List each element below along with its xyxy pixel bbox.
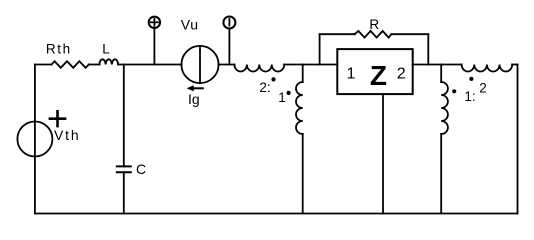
wire T1 primary to Z box <box>284 64 337 66</box>
wire T2 to right edge <box>512 64 517 66</box>
node C branch: wire down to capacitor <box>123 65 125 167</box>
resistor Rth <box>52 61 89 68</box>
bottom rail <box>35 213 518 215</box>
wire Z right to transformer2 <box>413 64 462 66</box>
wire between Rth and L <box>89 64 100 66</box>
svg-text:2: 2 <box>479 81 487 96</box>
transformer T2 primary winding (1) vertical <box>440 65 442 83</box>
T1 dot primary <box>271 77 275 81</box>
terminal | (Vu negative probe) <box>228 29 230 65</box>
svg-text:2:: 2: <box>259 80 270 95</box>
terminal + (Vu positive probe) <box>153 28 155 65</box>
capacitor C <box>117 165 131 167</box>
wire L to source circle <box>118 64 181 66</box>
resistor R <box>355 31 392 38</box>
svg-text:Vth: Vth <box>54 127 80 143</box>
wire top-left lead to resistor <box>35 64 52 66</box>
voltage source Vth <box>17 122 52 157</box>
svg-text:Ig: Ig <box>188 91 200 107</box>
wire left vertical (Vth branch) <box>34 65 36 214</box>
inductor L <box>99 59 118 64</box>
transformer T1 primary winding (2) horizontal <box>234 65 284 72</box>
svg-text:C: C <box>136 161 146 177</box>
svg-text:1: 1 <box>346 65 355 82</box>
T1 dot secondary <box>287 91 291 95</box>
svg-text:2: 2 <box>397 65 406 82</box>
wire source to transformer1 primary <box>219 64 235 66</box>
T2 dot secondary <box>469 77 473 81</box>
wire Z bottom lead <box>382 94 384 213</box>
wire right vertical <box>517 65 519 214</box>
T2 dot primary <box>452 89 456 93</box>
two-port Z box <box>337 49 412 94</box>
transformer T2 secondary winding (2) horizontal <box>462 65 513 72</box>
svg-text:Rth: Rth <box>46 42 72 57</box>
svg-text:1: 1 <box>278 90 286 105</box>
plus sign of Vth <box>50 111 65 126</box>
resistor R branch over Z <box>319 34 321 64</box>
svg-text:1:: 1: <box>464 89 475 104</box>
transformer T1 secondary winding (1) vertical <box>302 65 304 83</box>
svg-text:L: L <box>102 42 110 57</box>
svg-text:Vu: Vu <box>181 17 199 33</box>
arrow of Ig <box>193 87 203 89</box>
svg-text:Z: Z <box>370 60 387 91</box>
svg-text:R: R <box>369 17 379 32</box>
current source Ig <box>181 46 218 83</box>
